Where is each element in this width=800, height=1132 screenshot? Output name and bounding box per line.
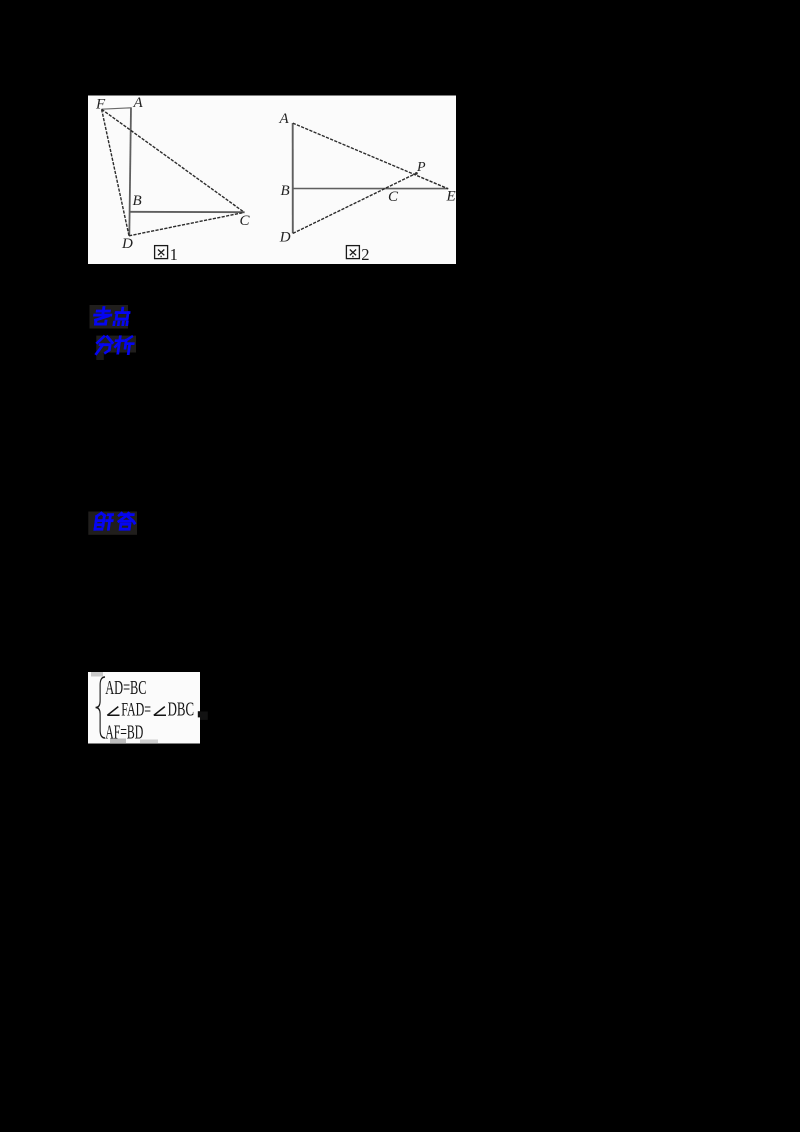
header2 char 分 strokes bbox=[96, 337, 113, 354]
equation line 2 angle symbol 2 bbox=[154, 707, 166, 716]
node P dot bbox=[415, 172, 418, 175]
wire A-D (vertical segment) bbox=[129, 107, 131, 235]
system brace bbox=[96, 677, 105, 738]
wire F-D bbox=[102, 109, 129, 236]
wire F-A (top segment) bbox=[102, 108, 131, 109]
svg-text:A: A bbox=[279, 111, 290, 127]
svg-text:AD=BC: AD=BC bbox=[105, 676, 146, 699]
header1 char 点 strokes bbox=[114, 308, 130, 325]
header3 char 答 strokes bbox=[117, 513, 136, 529]
header2 gray backdrop bbox=[96, 336, 136, 353]
wire A-E bbox=[293, 123, 448, 189]
wire D-P bbox=[293, 173, 417, 233]
svg-text:C: C bbox=[388, 189, 399, 205]
faint comma remainder outside panel bbox=[200, 712, 208, 720]
svg-text:DBC: DBC bbox=[168, 698, 194, 720]
svg-text:A: A bbox=[133, 95, 144, 111]
wire B-C (horizontal segment) bbox=[130, 211, 244, 213]
wire D-C bbox=[129, 212, 244, 235]
svg-text:AF=BD: AF=BD bbox=[105, 723, 143, 744]
wire A-D fig2 (vertical segment) bbox=[292, 123, 294, 233]
header1 char 考 strokes bbox=[93, 308, 111, 325]
header2 char 析 strokes bbox=[114, 337, 134, 354]
header2 gray backdrop lower notch bbox=[96, 353, 104, 361]
svg-text:B: B bbox=[133, 193, 142, 209]
svg-text:D: D bbox=[121, 236, 133, 252]
svg-text:F: F bbox=[95, 96, 106, 112]
equation panel bottom-edge smudges bbox=[110, 739, 126, 744]
equation line 2 angle symbol 1 bbox=[107, 707, 119, 716]
figure panel background bbox=[88, 96, 456, 265]
svg-text:FAD=: FAD= bbox=[121, 700, 151, 720]
comma at panel edge bbox=[198, 711, 200, 717]
caption 图1 glyph box bbox=[155, 246, 168, 259]
wire B-E (horizontal segment) bbox=[293, 188, 449, 190]
equation panel background bbox=[88, 672, 200, 744]
equation panel top-edge smudge bbox=[91, 672, 103, 677]
header3 gray backdrop bbox=[88, 512, 137, 535]
svg-text:P: P bbox=[416, 160, 426, 175]
svg-text:D: D bbox=[279, 230, 291, 246]
svg-text:B: B bbox=[281, 183, 290, 199]
svg-text:1: 1 bbox=[170, 245, 178, 264]
svg-text:2: 2 bbox=[361, 245, 369, 264]
svg-text:E: E bbox=[446, 189, 456, 205]
wire F-C bbox=[102, 109, 245, 212]
header3 char 解 strokes bbox=[95, 513, 113, 529]
header1 gray backdrop bbox=[90, 305, 129, 329]
caption 图2 glyph box bbox=[346, 246, 359, 259]
svg-text:C: C bbox=[240, 213, 251, 229]
